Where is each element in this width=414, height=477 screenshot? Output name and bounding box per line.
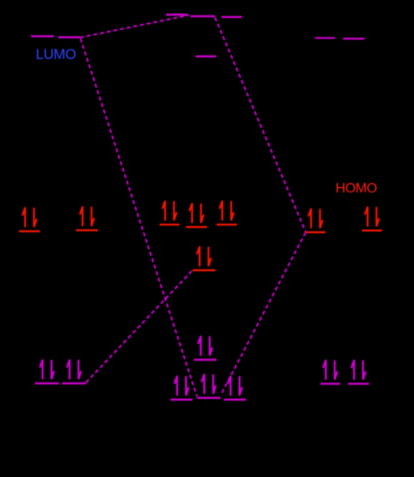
level: empty orbital top-right 2 [343, 38, 365, 40]
dashed correlation: left bottom pair to center filled MO [86, 271, 192, 383]
dashed correlation: antibonding MO to right-fragment HOMO [215, 18, 306, 232]
level: antibonding MO a* (top-center left) [166, 14, 188, 16]
occupied level with electron pair: right-fragment HOMO 2 [362, 207, 382, 231]
occupied level with electron pair: center t2g 2 [186, 203, 207, 227]
dashed correlation: LUMO to bonding MO (bottom center) [81, 39, 198, 397]
occupied level with electron pair: center t2g 3 [217, 201, 238, 225]
occupied level with electron pair: left metal d2 [76, 206, 98, 230]
occupied level with electron pair: bonding MO 2 (bottom center middle) [197, 374, 221, 398]
dashed correlation: LUMO to antibonding MO [80, 15, 189, 37]
occupied level with electron pair: center sigma above bonding [194, 336, 217, 360]
occupied level with electron pair: bonding MO 3 (bottom center right) [224, 376, 246, 400]
level: antibonding MO b* (top-center middle) [191, 15, 216, 17]
occupied level with electron pair: bonding MO 1 (bottom center left) [171, 376, 193, 400]
level: antibonding MO c* (top-center right) [222, 16, 243, 18]
level: left-fragment LUMO e-set line 2 [58, 36, 80, 38]
occupied level with electron pair: right bottom 1 [321, 360, 341, 384]
occupied level with electron pair: center filled MO below t2g [193, 246, 216, 270]
svg-text:LUMO: LUMO [36, 47, 76, 63]
occupied level with electron pair: left bottom 2 [62, 359, 86, 383]
occupied level with electron pair: right-fragment HOMO 1 [306, 208, 326, 232]
level: empty orbital top-right 1 [315, 37, 335, 39]
occupied level with electron pair: left bottom 1 [35, 359, 59, 383]
level: left-fragment LUMO e-set line 1 [31, 35, 54, 37]
dashed correlation: right-fragment HOMO to bonding MO [221, 233, 306, 396]
svg-text:HOMO: HOMO [336, 180, 378, 195]
occupied level with electron pair: left metal d1 [19, 207, 40, 231]
level: empty MO below antibonding cluster [196, 55, 217, 57]
occupied level with electron pair: center t2g 1 [160, 201, 180, 225]
occupied level with electron pair: right bottom 2 [348, 360, 369, 384]
